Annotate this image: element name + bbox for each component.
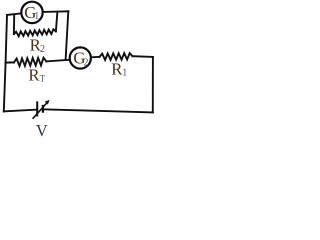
wire: bottom left horizontal from battery <box>4 110 37 112</box>
battery short plate <box>42 105 44 113</box>
wire: inner left vertical (G1 to R2) <box>13 15 15 35</box>
wire: right outer vertical (top box to mid wire) <box>66 11 69 60</box>
wire: right vertical <box>152 57 154 113</box>
galvanometer G1 <box>21 2 42 23</box>
variable arrow <box>33 102 48 119</box>
resistor R2 <box>14 29 56 36</box>
wire: mid-left stub from node to RT <box>6 61 14 63</box>
wire: mid horizontal R1 to right corner <box>133 55 153 58</box>
wire: left outer vertical (top box to bottom-left corner) <box>4 15 7 111</box>
wire: top left horizontal <box>7 13 21 15</box>
svg-text:1: 1 <box>34 11 39 22</box>
wire: mid horizontal from RT to G2 <box>46 60 69 62</box>
battery long plate <box>36 101 38 116</box>
battery V (variable source) <box>33 100 50 119</box>
svg-text:2: 2 <box>84 57 89 68</box>
svg-text:V: V <box>36 121 48 140</box>
label R2 <box>30 35 45 55</box>
wire: top right horizontal <box>43 10 68 13</box>
wire: inner right vertical (R2 to G1 branch) <box>56 12 58 32</box>
svg-text:1: 1 <box>122 68 127 79</box>
label R1 <box>111 59 127 78</box>
resistor RT <box>14 58 46 66</box>
wire: mid horizontal G2 to R1 <box>91 56 100 58</box>
resistor R1 <box>100 53 133 60</box>
label RT <box>28 66 45 85</box>
wire: bottom right horizontal to battery <box>43 109 153 112</box>
svg-text:2: 2 <box>40 44 45 55</box>
svg-text:R: R <box>28 66 40 85</box>
galvanometer G2 <box>70 47 91 68</box>
svg-text:T: T <box>40 73 46 83</box>
